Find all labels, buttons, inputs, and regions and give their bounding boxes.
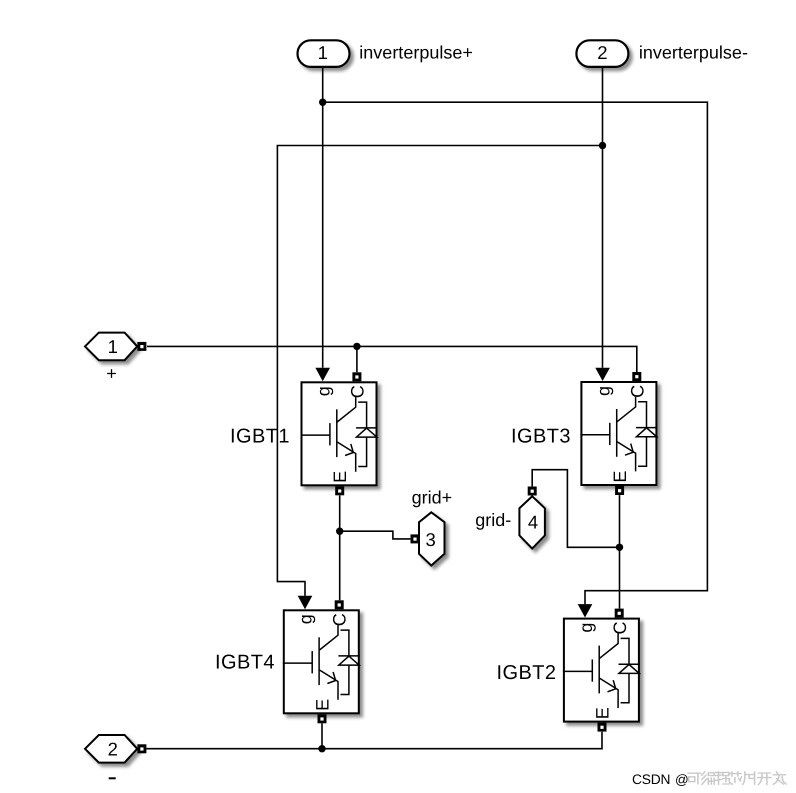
wire + rail branch down to IGBT1 collector bbox=[356, 346, 358, 372]
svg-text:grid+: grid+ bbox=[412, 487, 453, 507]
node junction on inverterpulse+ wire bbox=[319, 99, 326, 106]
wire inverterpulse- branch to IGBT4 gate bbox=[277, 146, 602, 610]
svg-text:+: + bbox=[106, 364, 117, 384]
svg-text:1: 1 bbox=[108, 336, 118, 357]
transistor IGBT4 bbox=[283, 610, 360, 713]
svg-text:1: 1 bbox=[318, 42, 328, 63]
label - bbox=[109, 777, 116, 779]
node junction - rail bbox=[318, 745, 325, 752]
connection port 4 (grid-) hexagon bbox=[519, 496, 545, 548]
svg-text:3: 3 bbox=[426, 529, 436, 550]
node junction + rail to IGBT1 collector bbox=[353, 343, 360, 350]
watermark CJK glyphs bbox=[688, 772, 786, 785]
pin E port IGBT3 bbox=[615, 486, 624, 495]
svg-text:grid-: grid- bbox=[475, 510, 511, 530]
svg-text:IGBT1: IGBT1 bbox=[230, 425, 290, 447]
svg-text:inverterpulse+: inverterpulse+ bbox=[359, 42, 473, 62]
connection port 1 (+) hexagon bbox=[85, 333, 137, 361]
node junction grid- bbox=[616, 544, 623, 551]
svg-text:IGBT4: IGBT4 bbox=[215, 652, 275, 674]
svg-text:inverterpulse-: inverterpulse- bbox=[639, 42, 748, 62]
svg-text:IGBT3: IGBT3 bbox=[511, 425, 571, 447]
transistor IGBT1 bbox=[301, 382, 378, 485]
wire inverterpulse+ to IGBT1 gate bbox=[315, 67, 330, 381]
wire + rail to IGBT3 collector bbox=[147, 346, 637, 372]
inport 1 oval (inverterpulse+) bbox=[298, 40, 473, 67]
svg-text:2: 2 bbox=[597, 42, 607, 63]
pin port square hexagon 1 bbox=[137, 342, 146, 351]
pin port square hexagon 3 bbox=[411, 534, 420, 543]
wire IGBT4 emitter down to - rail bbox=[321, 723, 323, 748]
wire inverterpulse- to IGBT3 gate bbox=[595, 67, 610, 381]
svg-text:2: 2 bbox=[108, 739, 118, 760]
pin C port IGBT3 bbox=[632, 372, 641, 381]
pin port square hexagon 2 bbox=[137, 744, 146, 753]
node junction to grid+ bbox=[336, 528, 343, 535]
transistor IGBT3 bbox=[580, 382, 657, 485]
pin port square hexagon 4 bbox=[528, 487, 537, 496]
wire inverterpulse+ branch to IGBT2 gate bbox=[323, 102, 708, 617]
wire IGBT3 emitter to IGBT2 collector bbox=[619, 495, 621, 608]
svg-text:IGBT2: IGBT2 bbox=[496, 662, 556, 684]
node junction on inverterpulse- wire bbox=[599, 142, 606, 149]
pin E port IGBT4 bbox=[318, 714, 327, 723]
connection port 2 (-) hexagon bbox=[85, 735, 137, 763]
pin E port IGBT2 bbox=[598, 723, 607, 732]
wire IGBT2 emitter to - rail bbox=[146, 732, 602, 749]
pin C port IGBT4 bbox=[335, 600, 344, 609]
wire branch to grid+ port 3 bbox=[340, 531, 411, 539]
svg-text:CSDN: CSDN bbox=[632, 772, 670, 787]
pin C port IGBT2 bbox=[615, 609, 624, 618]
svg-text:@: @ bbox=[675, 772, 689, 787]
wire grid- port 4 to IGBT3 emitter node bbox=[532, 470, 619, 548]
transistor IGBT2 bbox=[563, 619, 640, 722]
inport 2 oval (inverterpulse-) bbox=[576, 40, 748, 67]
svg-text:4: 4 bbox=[528, 512, 538, 533]
wire IGBT1 emitter to IGBT4 collector bbox=[339, 495, 341, 600]
pin E port IGBT1 bbox=[335, 486, 344, 495]
pin C port IGBT1 bbox=[352, 372, 361, 381]
connection port 3 (grid+) hexagon bbox=[419, 512, 445, 565]
